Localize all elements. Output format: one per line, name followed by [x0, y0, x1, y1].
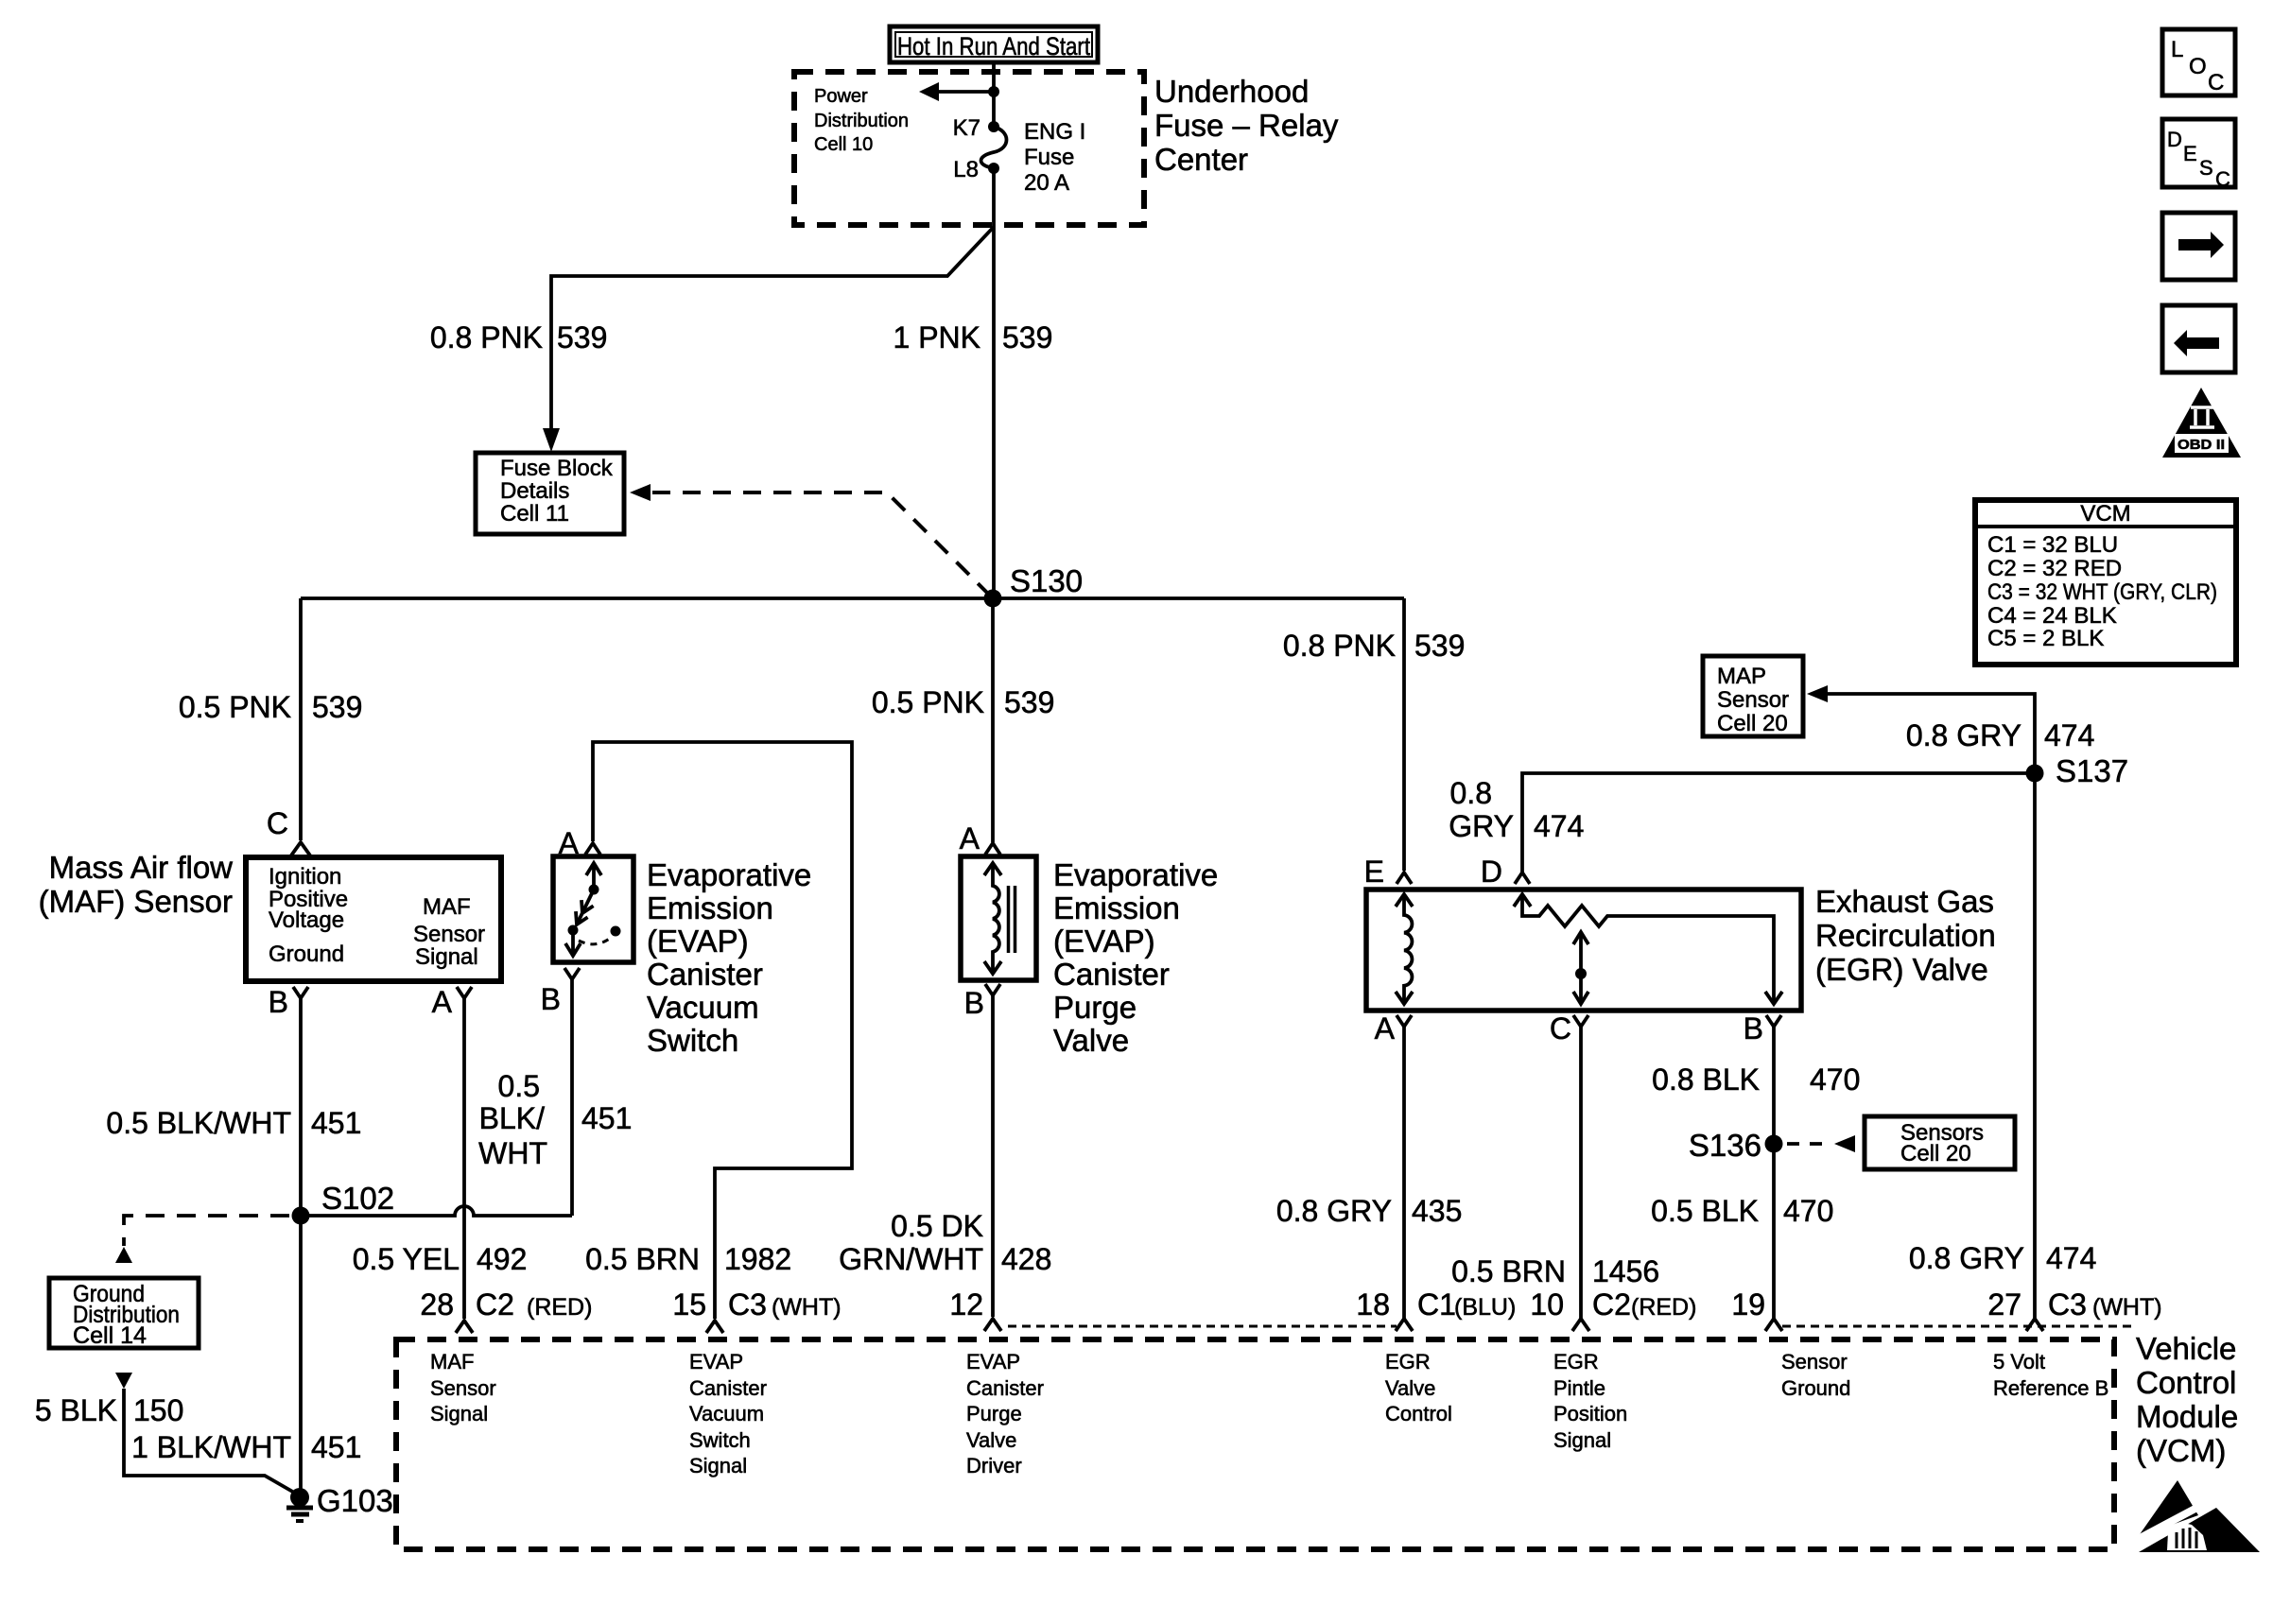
EVAP canister vacuum switch box — [553, 856, 633, 962]
switch contact dot right — [611, 926, 621, 937]
wire 1 PNK 539 down to S130 — [992, 168, 996, 598]
svg-text:Purge: Purge — [966, 1402, 1022, 1425]
title box Hot In Run And Start — [890, 26, 1098, 62]
label 1 PNK 539 — [894, 320, 1053, 354]
down triangle below ground box — [115, 1373, 132, 1389]
label 0.8 BLK 470 — [1652, 1063, 1860, 1097]
svg-text:Module: Module — [2136, 1399, 2238, 1434]
svg-text:1982: 1982 — [724, 1242, 791, 1276]
pin 18 description EGR Valve Control — [1385, 1350, 1452, 1425]
svg-text:Sensor: Sensor — [413, 922, 485, 947]
svg-text:Canister: Canister — [689, 1376, 767, 1400]
svg-text:0.8 GRY: 0.8 GRY — [1276, 1194, 1392, 1228]
svg-text:470: 470 — [1810, 1063, 1860, 1097]
svg-text:(EVAP): (EVAP) — [647, 924, 749, 959]
label 0.5 PNK 539 (center) — [872, 685, 1055, 719]
purge valve core bars — [1009, 886, 1015, 953]
svg-text:MAF: MAF — [430, 1350, 474, 1373]
svg-text:492: 492 — [477, 1242, 527, 1276]
wire 0.8 BLK 470 EGR B down through S136 to VCM pin 19 — [1772, 1027, 1776, 1319]
svg-text:0.8: 0.8 — [1450, 776, 1492, 810]
svg-text:C2 = 32 RED: C2 = 32 RED — [1987, 556, 2122, 581]
svg-text:0.5 BLK: 0.5 BLK — [1651, 1194, 1759, 1228]
svg-text:Evaporative: Evaporative — [1053, 857, 1218, 892]
svg-text:451: 451 — [311, 1430, 361, 1464]
svg-text:Switch: Switch — [647, 1023, 738, 1058]
switch blade diagonal with arrowheads — [571, 891, 594, 927]
label 0.5 BLK 470 — [1651, 1194, 1833, 1228]
VCM pin 28 connector — [456, 1321, 473, 1333]
pin 19 description Sensor Ground — [1781, 1350, 1850, 1400]
svg-text:0.8 GRY: 0.8 GRY — [1909, 1241, 2024, 1275]
VCM pin 10 connector — [1572, 1319, 1589, 1331]
pin 15 description EVAP Canister Vacuum Switch Signal — [689, 1350, 767, 1477]
svg-text:470: 470 — [1783, 1194, 1833, 1228]
svg-text:28: 28 — [420, 1287, 454, 1322]
svg-text:L: L — [2171, 37, 2183, 62]
svg-text:Pintle: Pintle — [1553, 1376, 1605, 1400]
svg-text:S130: S130 — [1010, 563, 1083, 598]
wire 0.8 GRY 474 S137 down to VCM pin 27 — [2033, 773, 2037, 1319]
svg-text:O: O — [2189, 54, 2207, 79]
svg-text:0.5 BLK/WHT: 0.5 BLK/WHT — [106, 1106, 291, 1140]
label 0.5 YEL 492 — [353, 1242, 528, 1276]
svg-text:S: S — [2199, 156, 2213, 180]
svg-text:Ignition: Ignition — [269, 864, 341, 890]
svg-text:Sensor: Sensor — [1781, 1350, 1848, 1373]
svg-text:C3: C3 — [728, 1287, 767, 1322]
fuse element curve — [981, 127, 1007, 168]
svg-text:B: B — [541, 982, 561, 1016]
svg-text:(EVAP): (EVAP) — [1053, 924, 1155, 959]
svg-text:(RED): (RED) — [1631, 1294, 1696, 1321]
svg-text:S136: S136 — [1689, 1128, 1761, 1163]
wire 0.5 YEL 492 MAF A down to VCM pin 28 — [462, 998, 466, 1319]
pin 10 description EGR Pintle Position Signal — [1553, 1350, 1627, 1452]
svg-text:Valve: Valve — [1385, 1376, 1435, 1400]
svg-text:Fuse: Fuse — [1024, 145, 1074, 170]
Underhood Fuse-Relay Center dashed box — [794, 72, 1144, 225]
EGR wiper C with arrows and junction dot — [1573, 932, 1588, 1004]
svg-text:Mass Air flow: Mass Air flow — [49, 850, 234, 885]
label 0.8 GRY 435 — [1276, 1194, 1463, 1228]
svg-text:(EGR) Valve: (EGR) Valve — [1815, 952, 1988, 987]
label Underhood Fuse - Relay Center — [1154, 74, 1339, 177]
pin 12 description EVAP Canister Purge Valve Driver — [966, 1350, 1044, 1477]
svg-text:C1 = 32 BLU: C1 = 32 BLU — [1987, 532, 2118, 558]
VCM dashed box — [396, 1339, 2114, 1549]
label 0.5 BRN 1982 — [585, 1242, 791, 1276]
purge valve coil symbol with arrows — [984, 863, 1001, 974]
svg-text:Canister: Canister — [966, 1376, 1044, 1400]
svg-text:S102: S102 — [321, 1181, 394, 1216]
svg-text:OBD II: OBD II — [2178, 437, 2225, 453]
switch contact dot left — [568, 925, 579, 936]
svg-text:474: 474 — [2046, 1241, 2096, 1275]
svg-text:S137: S137 — [2056, 753, 2128, 788]
VCM connector legend box — [1975, 500, 2236, 665]
svg-text:0.5: 0.5 — [498, 1069, 540, 1103]
MAF box inner text — [269, 864, 485, 970]
label Vehicle Control Module (VCM) — [2136, 1331, 2238, 1468]
svg-text:C4 = 24 BLK: C4 = 24 BLK — [1987, 603, 2117, 629]
svg-text:1456: 1456 — [1592, 1254, 1659, 1288]
svg-text:Canister: Canister — [1053, 957, 1170, 992]
svg-text:451: 451 — [311, 1106, 361, 1140]
svg-text:Sensor: Sensor — [430, 1376, 496, 1400]
svg-text:Cell 10: Cell 10 — [814, 134, 873, 155]
wire EVAP vacuum switch pin A loop to VCM pin 15 — [593, 742, 852, 1319]
reference box Fuse Block Details Cell 11 — [476, 453, 624, 534]
svg-text:539: 539 — [1004, 685, 1054, 719]
reference box Sensors Cell 20 — [1865, 1116, 2015, 1169]
svg-text:Sensor: Sensor — [1717, 687, 1789, 713]
svg-text:Ground: Ground — [1781, 1376, 1850, 1400]
wire arrow from S137 to MAP sensor box — [1807, 685, 2035, 773]
svg-text:L8: L8 — [953, 157, 979, 182]
svg-text:D: D — [2167, 128, 2182, 151]
svg-text:539: 539 — [557, 320, 607, 354]
svg-text:Cell 14: Cell 14 — [73, 1322, 147, 1349]
svg-text:Evaporative: Evaporative — [647, 857, 811, 892]
MAF pin B connector — [293, 987, 308, 998]
svg-text:Voltage: Voltage — [269, 907, 344, 933]
wire 0.5 PNK 539 down to EVAP purge valve pin A — [991, 598, 995, 842]
dashed reference arrow from S130 to Fuse Block Details — [630, 484, 990, 596]
svg-text:(WHT): (WHT) — [772, 1294, 842, 1321]
svg-text:0.5 DK: 0.5 DK — [891, 1209, 983, 1243]
svg-text:Emission: Emission — [1053, 890, 1180, 925]
svg-text:Control: Control — [2136, 1365, 2236, 1400]
switch lower arrow — [565, 932, 581, 956]
svg-text:Switch: Switch — [689, 1428, 751, 1452]
label 0.8 GRY 474 (lower right) — [1909, 1241, 2097, 1275]
dashed reference wire S102 to Ground Distribution — [124, 1216, 289, 1246]
EGR pin A connector — [1397, 1015, 1412, 1027]
svg-text:1 PNK: 1 PNK — [894, 320, 980, 354]
svg-text:Valve: Valve — [966, 1428, 1016, 1452]
svg-text:Valve: Valve — [1053, 1023, 1129, 1058]
svg-text:D: D — [1481, 855, 1502, 889]
svg-text:BLK/: BLK/ — [479, 1101, 545, 1135]
pin 27 label — [1987, 1287, 2161, 1322]
svg-text:GRN/WHT: GRN/WHT — [839, 1242, 983, 1276]
label 0.5 BRN 1456 — [1451, 1254, 1659, 1288]
svg-text:C: C — [2208, 70, 2224, 95]
svg-text:Distribution: Distribution — [814, 111, 909, 131]
svg-text:(MAF) Sensor: (MAF) Sensor — [39, 884, 233, 919]
svg-text:C2: C2 — [1592, 1287, 1631, 1322]
svg-text:19: 19 — [1731, 1287, 1765, 1322]
svg-text:EGR: EGR — [1385, 1350, 1431, 1373]
connector fine dashed row pin19 to right — [1782, 1325, 2136, 1328]
svg-text:Driver: Driver — [966, 1454, 1022, 1477]
svg-text:A: A — [960, 821, 980, 855]
label 0.5 BLK/WHT 451 — [106, 1106, 361, 1140]
svg-text:435: 435 — [1412, 1194, 1462, 1228]
label 0.8 GRY 474 (upper right) — [1906, 718, 2095, 752]
arrowhead to ground reference (up triangle) — [115, 1247, 132, 1263]
fuse terminal L8 — [988, 163, 999, 174]
switch symbol: upper arrow — [586, 863, 601, 890]
svg-text:GRY: GRY — [1449, 809, 1514, 843]
svg-text:MAP: MAP — [1717, 664, 1766, 689]
EGR solenoid coil E-A with arrows — [1396, 894, 1413, 1004]
svg-text:B: B — [1744, 1011, 1763, 1045]
EGR valve box — [1366, 890, 1801, 1011]
label Exhaust Gas Recirculation (EGR) Valve — [1815, 884, 1996, 987]
wire 0.5 BRN 1456 EGR C down to VCM pin 10 — [1579, 1027, 1583, 1319]
svg-text:Ground: Ground — [269, 942, 344, 967]
pin 27 description 5 Volt Reference B — [1993, 1350, 2108, 1400]
svg-text:Fuse – Relay: Fuse – Relay — [1154, 108, 1339, 143]
svg-text:0.5 BRN: 0.5 BRN — [1451, 1254, 1566, 1288]
MAF pin A connector — [457, 987, 472, 998]
label 0.5 PNK 539 — [179, 690, 363, 724]
svg-text:474: 474 — [2044, 718, 2094, 752]
svg-text:Signal: Signal — [430, 1402, 488, 1425]
svg-text:1 BLK/WHT: 1 BLK/WHT — [131, 1430, 291, 1464]
svg-text:EGR: EGR — [1553, 1350, 1599, 1373]
label Evaporative Emission (EVAP) Canister Purge Valve — [1053, 857, 1218, 1058]
svg-text:EVAP: EVAP — [689, 1350, 743, 1373]
svg-text:A: A — [432, 985, 453, 1019]
EVAP canister purge valve box — [961, 856, 1036, 980]
svg-text:18: 18 — [1356, 1287, 1390, 1322]
svg-text:0.5 BRN: 0.5 BRN — [585, 1242, 700, 1276]
svg-text:C3 = 32 WHT (GRY, CLR): C3 = 32 WHT (GRY, CLR) — [1987, 579, 2217, 605]
svg-text:Recirculation: Recirculation — [1815, 918, 1996, 953]
svg-text:Purge: Purge — [1053, 990, 1136, 1025]
svg-text:B: B — [269, 985, 288, 1019]
svg-text:VCM: VCM — [2080, 501, 2130, 527]
svg-text:(WHT): (WHT) — [2092, 1294, 2162, 1321]
svg-text:MAF: MAF — [423, 894, 471, 920]
label ENG I Fuse 20 A — [1024, 119, 1085, 196]
svg-text:0.5 PNK: 0.5 PNK — [872, 685, 984, 719]
svg-text:0.5 YEL: 0.5 YEL — [353, 1242, 460, 1276]
icon LOC box — [2162, 29, 2235, 95]
MAF sensor pin C connector — [291, 842, 310, 855]
svg-text:0.8 GRY: 0.8 GRY — [1906, 718, 2021, 752]
node S137 — [2026, 753, 2129, 788]
label 0.8 PNK 539 — [430, 320, 608, 354]
svg-text:Reference B: Reference B — [1993, 1376, 2108, 1400]
wire main bus at S130 — [301, 596, 1404, 600]
svg-text:C1: C1 — [1417, 1287, 1456, 1322]
label Mass Air flow (MAF) Sensor — [39, 850, 234, 919]
icon OBD II triangle — [2162, 388, 2241, 458]
wire S102 horizontal with hop over MAF A wire — [301, 1206, 572, 1216]
svg-text:Cell 11: Cell 11 — [500, 501, 569, 527]
svg-text:10: 10 — [1530, 1287, 1564, 1322]
wire 0.5 PNK 539 down to MAF pin C — [299, 598, 303, 840]
wire 0.5 BLK/WHT 451 switch B down to S102 line — [570, 979, 574, 1216]
icon DESC box — [2162, 119, 2235, 191]
switch pivot dot — [589, 885, 599, 895]
svg-text:Signal: Signal — [1553, 1428, 1611, 1452]
svg-text:Vacuum: Vacuum — [689, 1402, 764, 1425]
svg-text:C2: C2 — [476, 1287, 514, 1322]
svg-text:C: C — [267, 806, 288, 840]
icon right arrow box — [2162, 213, 2235, 280]
svg-text:K7: K7 — [953, 115, 980, 141]
svg-text:C: C — [2215, 167, 2230, 191]
svg-text:E: E — [2183, 142, 2197, 165]
svg-text:B: B — [964, 986, 984, 1020]
svg-text:451: 451 — [581, 1101, 632, 1135]
svg-text:C3: C3 — [2048, 1287, 2087, 1322]
svg-text:Center: Center — [1154, 142, 1248, 177]
reference box Ground Distribution Cell 14 — [49, 1278, 199, 1349]
svg-text:A: A — [1375, 1011, 1396, 1045]
wire 0.8 GRY 474 EGR pin D up and right to S137 — [1522, 773, 2035, 872]
svg-text:Cell 20: Cell 20 — [1717, 711, 1788, 736]
svg-text:428: 428 — [1001, 1242, 1051, 1276]
svg-text:0.8 PNK: 0.8 PNK — [430, 320, 543, 354]
ground G103 — [286, 1483, 393, 1521]
VCM pin 18 connector — [1396, 1319, 1413, 1331]
label Power Distribution Cell 10 — [814, 86, 909, 155]
label 5 BLK 150 — [35, 1393, 184, 1427]
wire main feed from Hot box — [992, 62, 996, 127]
wire arrow to Power Distribution — [919, 82, 994, 101]
svg-text:12: 12 — [949, 1287, 983, 1322]
svg-text:Hot In Run And Start: Hot In Run And Start — [897, 32, 1090, 60]
wire 0.8 PNK 539 branch to Fuse Block Details — [543, 227, 994, 452]
ESD sensitive device symbol — [2129, 1480, 2260, 1552]
svg-text:Details: Details — [500, 478, 569, 504]
VCM pin 12 connector — [984, 1319, 1001, 1331]
pin 15 label — [672, 1287, 841, 1322]
EGR pin B connector — [1766, 1015, 1781, 1027]
svg-text:(RED): (RED) — [527, 1294, 592, 1321]
switch dashed travel arc — [579, 938, 611, 944]
svg-text:5 Volt: 5 Volt — [1993, 1350, 2045, 1373]
node junction dot (power distribution tap) — [988, 86, 999, 97]
svg-text:Signal: Signal — [689, 1454, 747, 1477]
node S102 — [292, 1181, 395, 1225]
VCM pin 15 connector — [706, 1321, 723, 1333]
svg-text:C5 = 2 BLK: C5 = 2 BLK — [1987, 626, 2104, 651]
svg-text:Exhaust Gas: Exhaust Gas — [1815, 884, 1994, 919]
svg-text:Control: Control — [1385, 1402, 1452, 1425]
node S136 with dashed reference arrow — [1689, 1128, 1855, 1163]
EGR resistor D-B — [1514, 894, 1782, 1004]
EVAP purge valve pin A connector — [985, 843, 1000, 855]
MAF sensor box — [246, 857, 501, 981]
VCM pin 27 connector — [2026, 1319, 2043, 1331]
label 0.5 BLK/WHT 451 (stacked) — [478, 1069, 632, 1170]
svg-text:27: 27 — [1987, 1287, 2021, 1322]
svg-text:(VCM): (VCM) — [2136, 1433, 2226, 1468]
svg-text:Cell 20: Cell 20 — [1900, 1141, 1971, 1166]
svg-text:539: 539 — [1414, 629, 1465, 663]
svg-text:0.8 BLK: 0.8 BLK — [1652, 1063, 1760, 1097]
svg-text:E: E — [1364, 855, 1384, 889]
EVAP purge valve pin B connector — [985, 984, 1000, 995]
svg-text:Fuse Block: Fuse Block — [500, 456, 614, 481]
svg-text:5 BLK: 5 BLK — [35, 1393, 117, 1427]
fuse F ENG I 20A: terminal K7 — [988, 121, 999, 132]
svg-text:Underhood: Underhood — [1154, 74, 1309, 109]
icon left arrow box — [2162, 305, 2235, 372]
label 0.8 GRY 474 (at D) — [1449, 776, 1584, 843]
pin 28 label — [420, 1287, 592, 1322]
svg-text:C: C — [1550, 1011, 1571, 1045]
EGR pin D connector — [1515, 872, 1530, 884]
wire 0.5 DK GRN/WHT 428 purge B down to VCM pin 12 — [991, 995, 995, 1317]
svg-text:150: 150 — [133, 1393, 183, 1427]
pin 10 label — [1530, 1287, 1696, 1322]
svg-text:(BLU): (BLU) — [1454, 1294, 1516, 1321]
reference box MAP Sensor Cell 20 — [1703, 656, 1803, 736]
EVAP vacuum switch pin B connector — [564, 968, 580, 979]
wire 5 BLK 150 to G103 — [124, 1389, 296, 1494]
svg-text:Signal: Signal — [415, 944, 478, 970]
label 1 BLK/WHT 451 — [131, 1430, 361, 1464]
svg-text:539: 539 — [312, 690, 362, 724]
VCM pin 19 connector — [1765, 1319, 1782, 1331]
wire 0.8 PNK 539 down to EGR pin E — [1402, 598, 1406, 871]
pin 28 description MAF Sensor Signal — [430, 1350, 496, 1425]
svg-text:Vehicle: Vehicle — [2136, 1331, 2236, 1366]
EVAP vacuum switch pin A connector — [585, 843, 600, 855]
svg-text:0.8 PNK: 0.8 PNK — [1283, 629, 1396, 663]
label Evaporative Emission (EVAP) Canister Vacuum Switch — [647, 857, 811, 1058]
svg-text:WHT: WHT — [478, 1136, 547, 1170]
svg-text:Vacuum: Vacuum — [647, 990, 759, 1025]
svg-text:Emission: Emission — [647, 890, 773, 925]
svg-text:G103: G103 — [317, 1483, 393, 1518]
svg-text:EVAP: EVAP — [966, 1350, 1020, 1373]
connector C3 fine dashed row pin12 to pin18 — [1008, 1325, 1397, 1328]
svg-text:Power: Power — [814, 86, 868, 107]
svg-text:539: 539 — [1002, 320, 1052, 354]
pin 18 label — [1356, 1287, 1516, 1322]
EGR pin E connector — [1397, 872, 1412, 884]
svg-text:0.5 PNK: 0.5 PNK — [179, 690, 291, 724]
EGR pin C connector — [1573, 1015, 1588, 1027]
svg-text:ENG I: ENG I — [1024, 119, 1085, 145]
node S130 — [984, 563, 1084, 608]
svg-text:20 A: 20 A — [1024, 170, 1069, 196]
label 0.8 PNK 539 (right) — [1283, 629, 1466, 663]
label 0.5 DK GRN/WHT 428 — [839, 1209, 1051, 1276]
svg-text:Canister: Canister — [647, 957, 763, 992]
svg-text:474: 474 — [1534, 809, 1584, 843]
wire 0.5 BLK/WHT 451 MAF B to S102 to G103 — [299, 998, 303, 1497]
svg-text:15: 15 — [672, 1287, 706, 1322]
svg-text:Position: Position — [1553, 1402, 1627, 1425]
wire 0.8 GRY 435 EGR A down to VCM pin 18 — [1402, 1027, 1406, 1319]
